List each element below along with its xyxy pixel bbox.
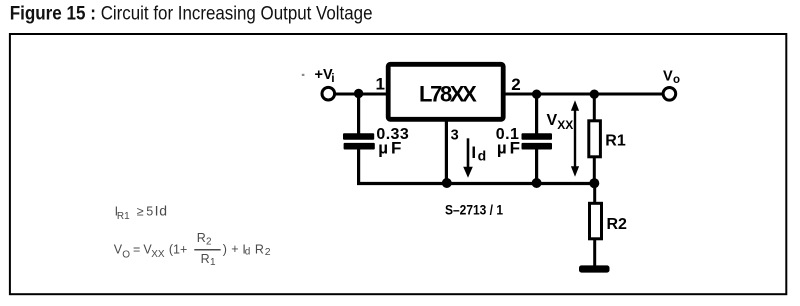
svg-text:I: I [471, 143, 476, 162]
value label 0.1 uF [496, 126, 523, 158]
wire: top rail down to C2 [535, 94, 538, 133]
svg-text:L78XX: L78XX [419, 82, 477, 107]
label Id [471, 143, 486, 164]
input terminal +Vi [322, 87, 335, 100]
svg-text:5: 5 [146, 205, 153, 219]
wire: pin 2 to Vo terminal [504, 93, 663, 96]
node: R1 top junction [590, 90, 599, 99]
label Vo [663, 69, 680, 87]
current arrow Id [463, 138, 473, 178]
svg-text:≥: ≥ [137, 204, 144, 218]
wire: input junction down to C1 [357, 94, 360, 134]
svg-text:=: = [133, 242, 140, 256]
wire: top rail to R1 [593, 94, 596, 121]
svg-text:XX: XX [151, 249, 165, 260]
svg-text:d: d [245, 246, 251, 257]
figure title [10, 4, 373, 25]
formula Vo = Vxx (1+ R2/R1) + Id R2 [114, 231, 271, 268]
svg-text:3: 3 [451, 128, 459, 144]
wire: R1 to junction [593, 157, 596, 184]
svg-text:+V: +V [315, 67, 333, 83]
wire: junction to R2 [593, 183, 596, 203]
resistor R1 [589, 121, 626, 157]
svg-text:d: d [478, 147, 487, 163]
svg-text:2: 2 [265, 246, 271, 258]
svg-text:O: O [122, 249, 130, 260]
node: C2 bottom junction [532, 178, 542, 188]
svg-text:Figure 15 :: Figure 15 : [10, 4, 96, 25]
svg-text:o: o [673, 74, 680, 86]
svg-text:R: R [201, 252, 210, 266]
wire: C2 to bottom rail [535, 150, 538, 186]
svg-text:XX: XX [557, 118, 573, 132]
scan speck [302, 74, 305, 76]
svg-text:V: V [547, 112, 558, 129]
value label 0.33 uF [376, 126, 409, 158]
svg-text:µF: µF [378, 138, 404, 157]
output terminal Vo [663, 88, 676, 101]
capacitor C1 0.33uF plates [343, 133, 375, 149]
wire: pin 3 to bottom rail [445, 119, 448, 184]
svg-text:): ) [223, 242, 227, 256]
capacitor C2 0.1uF plates [522, 133, 553, 149]
svg-text:(1+: (1+ [169, 242, 187, 256]
node: pin3 bottom junction [442, 178, 452, 188]
node: input junction [354, 89, 363, 98]
svg-text:R: R [255, 242, 264, 256]
svg-text:Circuit for Increasing Output: Circuit for Increasing Output Voltage [101, 4, 373, 25]
regulator U1 L78XX [388, 64, 503, 119]
ground [579, 265, 610, 272]
svg-text:1: 1 [210, 257, 216, 268]
svg-text:R2: R2 [607, 216, 628, 233]
svg-text:2: 2 [206, 237, 212, 248]
label +Vi [315, 67, 335, 85]
svg-text:2: 2 [511, 75, 520, 94]
formula IR1 >= 5 Id [115, 203, 168, 223]
svg-text:+: + [231, 242, 238, 256]
svg-text:R1: R1 [605, 132, 626, 149]
node: cap 0.1 top junction [532, 90, 541, 99]
svg-text:Id: Id [155, 203, 168, 219]
wire: C1 to bottom rail [357, 150, 360, 186]
svg-text:1: 1 [376, 75, 385, 94]
svg-text:V: V [663, 69, 673, 85]
node: R1/R2 junction [589, 178, 599, 188]
label Vxx [547, 112, 574, 132]
wire: R2 to ground [593, 239, 596, 267]
svg-text:R: R [197, 231, 206, 245]
resistor R2 [590, 203, 628, 239]
svg-text:R1: R1 [117, 211, 130, 222]
wire: input terminal to pin 1 [335, 93, 387, 96]
svg-text:µF: µF [497, 138, 523, 157]
bottom rail wire [357, 182, 596, 185]
svg-text:i: i [331, 71, 334, 85]
measurement arrow Vxx [571, 100, 579, 177]
svg-text:S–2713 / 1: S–2713 / 1 [445, 203, 503, 218]
